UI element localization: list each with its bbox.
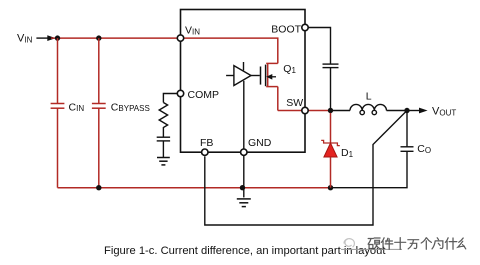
transistor Q1	[261, 63, 278, 110]
svg-text:L: L	[366, 91, 372, 103]
十	[395, 238, 406, 250]
pin VIN	[177, 35, 183, 41]
个	[421, 238, 431, 250]
junction dot VOUT node	[404, 108, 409, 113]
resistor RCOMP	[159, 103, 167, 138]
ground symbol at GND	[237, 199, 251, 207]
junction dot CBYPASS tap	[96, 35, 101, 40]
件	[381, 238, 392, 249]
capacitor CBYPASS	[92, 38, 106, 188]
watermark logo	[341, 239, 402, 250]
wire SW node to inductor	[331, 110, 351, 112]
junction dot GND ground	[240, 185, 245, 190]
pin COMP	[177, 90, 183, 96]
watermark text 硬件十万个为什么 drawn as strokes	[368, 238, 466, 250]
wire inductor to VOUT node	[387, 110, 408, 112]
junction dot SW node	[328, 108, 333, 113]
wire Q1 source to SW pin red	[278, 110, 302, 112]
svg-text:Figure 1-c. Current difference: Figure 1-c. Current difference, an impor…	[104, 245, 386, 257]
junction dot CBYPASS ground	[96, 185, 101, 190]
wire driver to GND pin	[243, 81, 245, 149]
inductor L	[350, 104, 386, 114]
万	[408, 240, 419, 249]
junction dot CIN tap	[55, 35, 60, 40]
input arrow	[36, 35, 55, 41]
junction dot D1 anode	[328, 185, 333, 190]
diode D1 schottky	[321, 113, 340, 188]
IC body U1	[181, 10, 306, 153]
svg-text:CIN: CIN	[69, 101, 85, 113]
pin BOOT	[302, 24, 308, 30]
wire VIN rail red	[51, 37, 177, 39]
为	[432, 238, 443, 249]
svg-text:SW: SW	[286, 97, 303, 109]
svg-text:CO: CO	[417, 143, 431, 155]
capacitor CBOOT	[323, 64, 339, 110]
pin SW	[302, 107, 308, 113]
pin FB	[202, 149, 208, 155]
wire ground return rail red	[58, 187, 331, 189]
ground symbol at COMP network	[157, 158, 170, 165]
capacitor CCOMP	[157, 137, 170, 157]
svg-text:CBYPASS: CBYPASS	[111, 101, 150, 113]
svg-text:VIN: VIN	[185, 25, 200, 37]
wire GND pin to ground	[243, 155, 245, 197]
svg-text:VOUT: VOUT	[432, 106, 456, 118]
pin GND	[241, 149, 247, 155]
wire ground rail to CO black	[331, 151, 408, 187]
硬	[368, 238, 380, 249]
capacitor CIN	[51, 38, 65, 188]
wire BOOT to bootstrap cap	[308, 28, 330, 65]
wire feedback VOUT to FB	[205, 111, 407, 226]
wire SW pin to junction red	[308, 110, 330, 112]
么	[458, 238, 466, 249]
svg-text:FB: FB	[200, 137, 213, 149]
svg-text:GND: GND	[248, 137, 272, 149]
wire COMP to compensation network	[163, 94, 177, 103]
svg-text:Q1: Q1	[283, 63, 296, 75]
svg-text:COMP: COMP	[188, 89, 220, 101]
output arrow	[407, 108, 428, 114]
svg-text:D1: D1	[341, 147, 354, 159]
什	[445, 238, 456, 250]
svg-text:BOOT: BOOT	[271, 24, 301, 36]
svg-text:VIN: VIN	[17, 33, 33, 45]
op-amp driver U1a	[226, 62, 260, 86]
capacitor CO	[401, 111, 414, 152]
wire VIN pin to Q1 drain red	[184, 38, 278, 63]
